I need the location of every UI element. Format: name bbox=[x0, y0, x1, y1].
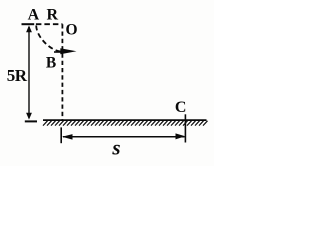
ground hatching bbox=[43, 121, 208, 126]
dashed quarter arc from A to B bbox=[36, 26, 62, 52]
svg-text:R: R bbox=[47, 6, 59, 23]
svg-text:B: B bbox=[46, 55, 56, 72]
bottom reference tick at ground level bbox=[25, 120, 37, 122]
dashed radius line A to O bbox=[36, 23, 63, 25]
svg-text:O: O bbox=[65, 22, 77, 39]
dashed vertical line from O down to ground bbox=[61, 24, 63, 119]
svg-text:A: A bbox=[28, 6, 40, 23]
ground line bbox=[43, 119, 207, 121]
top reference tick at A level bbox=[22, 23, 35, 25]
s-dimension left tick bbox=[60, 127, 62, 143]
svg-text:C: C bbox=[175, 99, 187, 116]
dimension line 5R (vertical double arrow) bbox=[26, 25, 32, 119]
svg-text:s: s bbox=[111, 135, 120, 159]
svg-text:5R: 5R bbox=[7, 66, 28, 85]
s-dimension right tick bbox=[184, 114, 186, 142]
s-dimension line with arrowheads bbox=[62, 133, 185, 139]
velocity arrow at B bbox=[54, 48, 77, 54]
